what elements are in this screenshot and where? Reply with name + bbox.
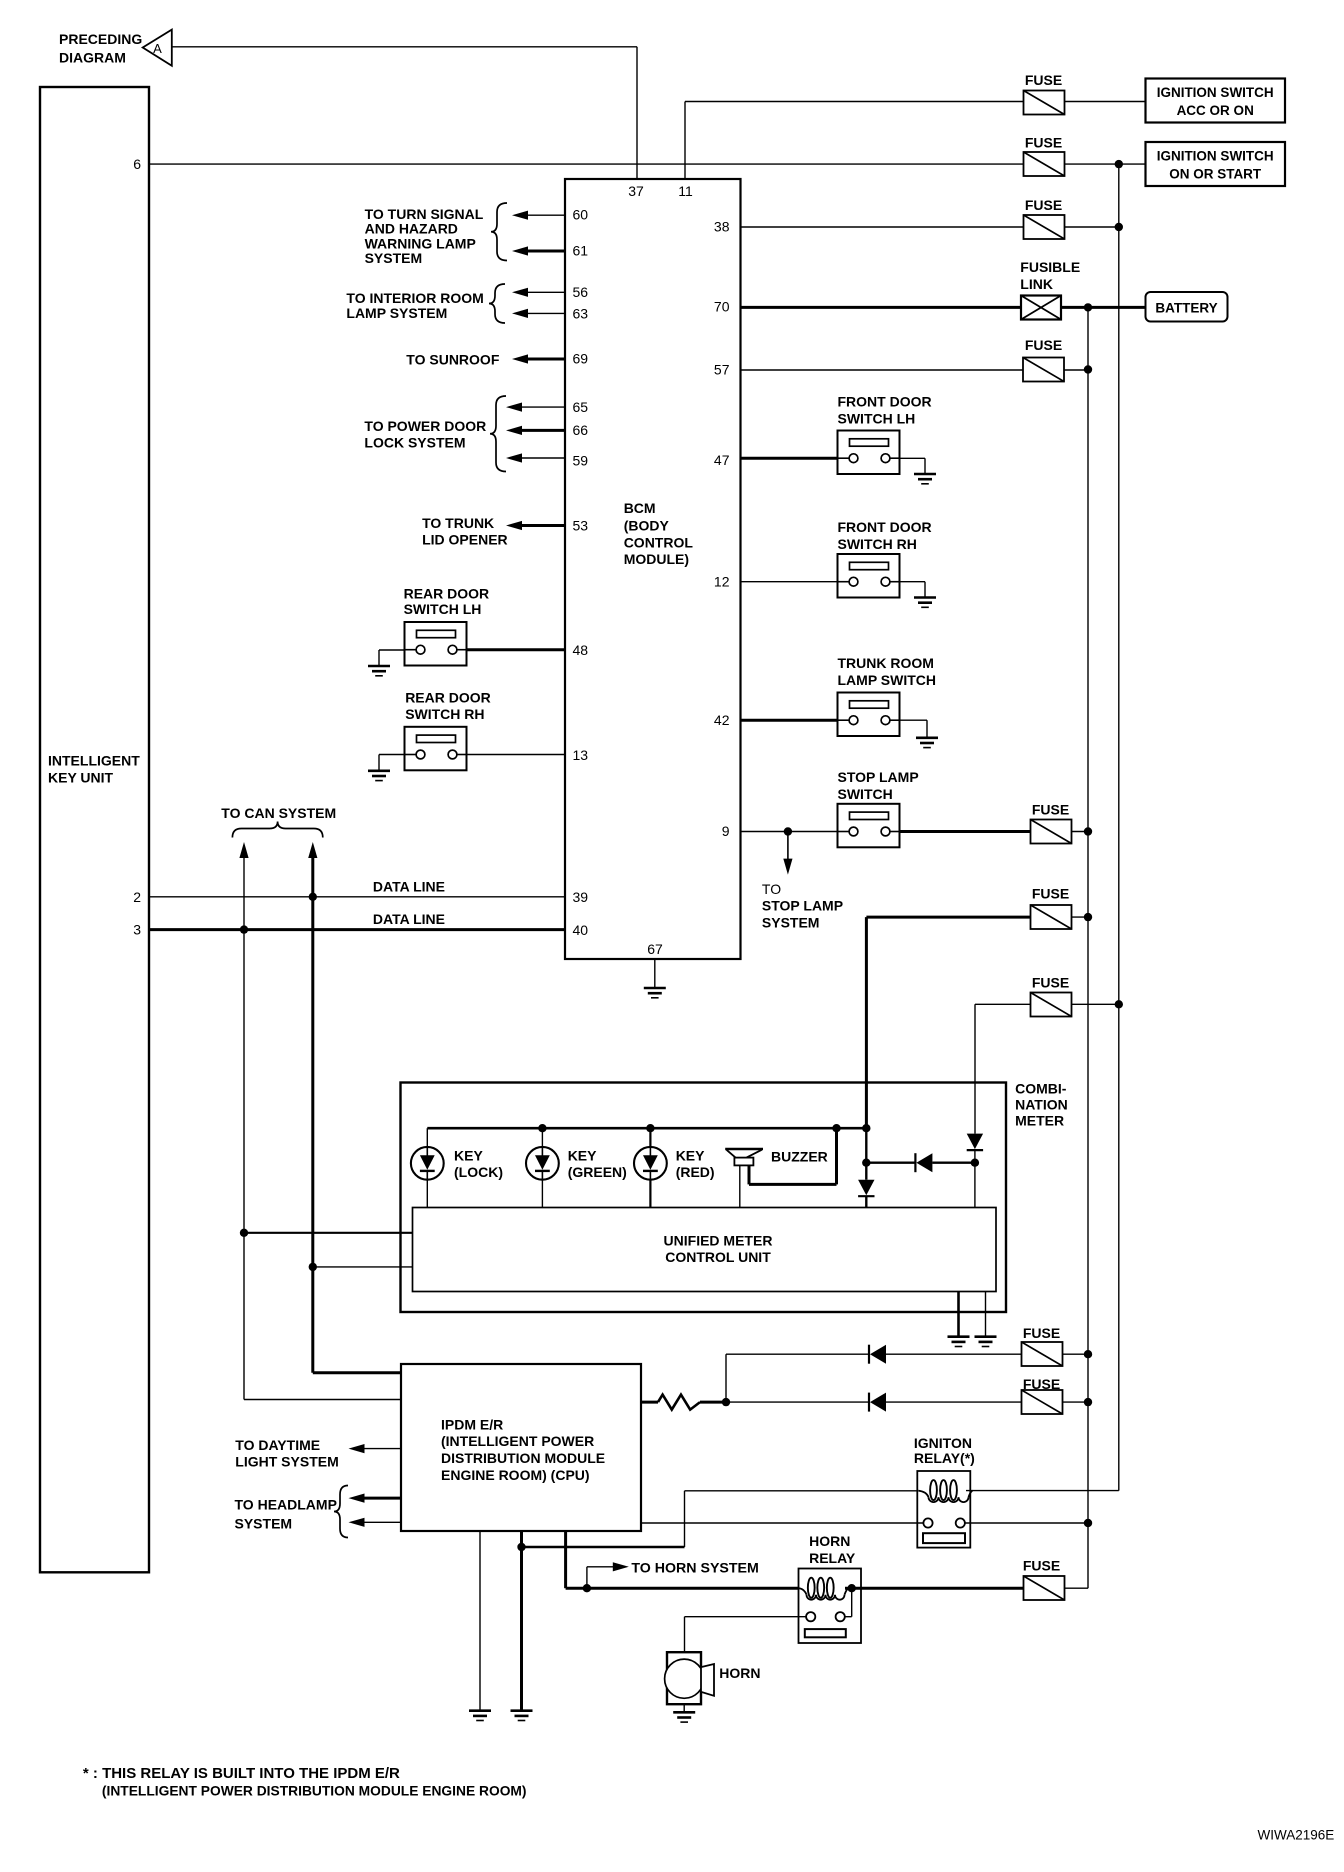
svg-text:40: 40	[573, 922, 589, 938]
arrow TO HORN SYSTEM	[586, 1567, 588, 1588]
wire to fuse F7	[975, 1003, 1031, 1005]
svg-text:BCM: BCM	[624, 500, 656, 516]
LED KEY GREEN	[538, 1124, 546, 1132]
wire horn relay contact to horn	[685, 1616, 807, 1618]
svg-text:FUSE: FUSE	[1023, 1325, 1060, 1341]
svg-text:SWITCH RH: SWITCH RH	[838, 536, 917, 552]
svg-text:TO HEADLAMP: TO HEADLAMP	[235, 1497, 337, 1513]
wire fuse F2 to ignition switch ON	[1065, 163, 1146, 165]
resistor in IPDM output	[641, 1401, 658, 1404]
data line pin2 to BCM pin39	[149, 896, 565, 898]
wire fuse F7 to ignition rail	[1072, 1003, 1119, 1005]
svg-text:SYSTEM: SYSTEM	[365, 250, 423, 266]
svg-text:69: 69	[573, 351, 589, 367]
wire coil junction to contact	[851, 1588, 853, 1617]
svg-text:ON OR START: ON OR START	[1169, 167, 1262, 182]
svg-text:LINK: LINK	[1020, 276, 1053, 292]
wire pin57 to fuse F4	[741, 369, 1023, 371]
junction on ignition rail	[1115, 160, 1123, 168]
svg-text:TO INTERIOR ROOM: TO INTERIOR ROOM	[346, 290, 483, 306]
svg-text:SWITCH: SWITCH	[838, 786, 893, 802]
svg-text:STOP LAMP: STOP LAMP	[762, 898, 843, 914]
svg-text:TO CAN SYSTEM: TO CAN SYSTEM	[221, 805, 336, 821]
wire stop lamp switch to fuse F5	[900, 830, 1031, 833]
meter ground 2	[985, 1292, 987, 1337]
wire coil to ignition rail	[966, 1490, 1119, 1492]
svg-text:NATION: NATION	[1015, 1097, 1068, 1113]
data line pin3 to BCM pin40	[149, 928, 565, 931]
ignition switch ACC OR ON box	[1146, 79, 1286, 123]
wire horn relay coil to fuse F10	[845, 1587, 1024, 1590]
wire ground to rear RH switch	[379, 754, 405, 756]
brace CAN group	[232, 822, 322, 838]
svg-text:9: 9	[722, 823, 730, 839]
svg-text:IGNITON: IGNITON	[914, 1435, 972, 1451]
svg-text:SYSTEM: SYSTEM	[762, 915, 820, 931]
wire IPDM to igniton relay coil (via below)	[685, 1490, 918, 1492]
ground rear door RH	[368, 769, 390, 772]
svg-text:STOP LAMP: STOP LAMP	[838, 769, 919, 785]
svg-text:UNIFIED METER: UNIFIED METER	[664, 1233, 773, 1249]
svg-text:13: 13	[573, 747, 589, 763]
BCM pin 67 ground wire	[654, 959, 656, 988]
svg-text:LAMP SYSTEM: LAMP SYSTEM	[346, 305, 447, 321]
svg-text:RELAY(*): RELAY(*)	[914, 1450, 975, 1466]
svg-text:47: 47	[714, 452, 730, 468]
svg-text:RELAY: RELAY	[809, 1550, 856, 1566]
buzzer symbol	[725, 1148, 763, 1150]
arrow to daytime light system	[364, 1448, 401, 1450]
wire trunk switch to ground	[900, 719, 928, 721]
wire fuse F4 to battery rail	[1064, 369, 1088, 371]
svg-text:(INTELLIGENT POWER: (INTELLIGENT POWER	[441, 1433, 594, 1449]
arrow to headlamp 2	[364, 1521, 401, 1523]
svg-text:3: 3	[133, 922, 141, 938]
svg-text:65: 65	[573, 399, 589, 415]
svg-text:DATA LINE: DATA LINE	[373, 879, 445, 895]
svg-text:SWITCH LH: SWITCH LH	[838, 411, 916, 427]
ground rear door LH	[368, 665, 390, 668]
svg-text:CONTROL: CONTROL	[624, 535, 694, 551]
svg-text:IGNITION SWITCH: IGNITION SWITCH	[1157, 85, 1274, 100]
svg-text:IGNITION SWITCH: IGNITION SWITCH	[1157, 149, 1274, 164]
wire fuse F6 to battery rail	[1072, 916, 1089, 918]
svg-text:53: 53	[573, 518, 589, 534]
wire pin12 to switch	[741, 581, 838, 583]
CAN arrow right	[311, 855, 314, 897]
meter ground 1	[957, 1292, 960, 1337]
svg-text:38: 38	[714, 219, 730, 235]
wire igniton relay contact to battery rail	[965, 1522, 1088, 1524]
svg-text:COMBI-: COMBI-	[1015, 1081, 1067, 1097]
svg-text:IPDM E/R: IPDM E/R	[441, 1417, 503, 1433]
wire ground to rear LH switch	[379, 649, 405, 651]
svg-text:INTELLIGENT: INTELLIGENT	[48, 753, 140, 769]
wire switch RH to ground	[900, 581, 926, 583]
meter diode D3 (down, right branch)	[967, 1134, 983, 1150]
BCM pin 11 wire to fuse	[684, 102, 686, 180]
wire rear RH switch to pin13	[467, 754, 566, 756]
wire pin38 to fuse F3	[741, 226, 1024, 228]
svg-text:HORN: HORN	[719, 1665, 760, 1681]
svg-text:(INTELLIGENT POWER DISTRIBUTIO: (INTELLIGENT POWER DISTRIBUTION MODULE E…	[102, 1784, 527, 1799]
svg-text:TO TRUNK: TO TRUNK	[422, 515, 494, 531]
svg-text:DIAGRAM: DIAGRAM	[59, 50, 126, 66]
svg-text:FUSE: FUSE	[1032, 886, 1069, 902]
svg-text:59: 59	[573, 452, 589, 468]
svg-text:METER: METER	[1015, 1113, 1064, 1129]
meter diode D1 (down, left branch)	[862, 1124, 870, 1132]
LED KEY LOCK	[426, 1128, 428, 1147]
svg-text:FUSE: FUSE	[1023, 1558, 1060, 1574]
svg-text:12: 12	[714, 574, 730, 590]
svg-text:39: 39	[573, 889, 589, 905]
svg-text:FUSE: FUSE	[1025, 337, 1062, 353]
svg-text:61: 61	[573, 242, 589, 258]
IPDM ground 2	[520, 1531, 523, 1711]
wire rear LH switch to pin48	[467, 648, 566, 651]
svg-text:SWITCH LH: SWITCH LH	[404, 601, 482, 617]
svg-text:ACC OR ON: ACC OR ON	[1177, 103, 1254, 118]
svg-text:BUZZER: BUZZER	[771, 1149, 828, 1165]
wire switch LH to ground	[900, 457, 926, 459]
svg-text:37: 37	[628, 183, 644, 199]
svg-text:66: 66	[573, 422, 589, 438]
wire to fuse F6	[866, 916, 1030, 919]
ground front door RH	[914, 596, 936, 599]
svg-text:FUSE: FUSE	[1025, 72, 1062, 88]
wire pin47 to switch	[741, 457, 838, 460]
svg-text:REAR DOOR: REAR DOOR	[405, 690, 491, 706]
svg-text:KEY: KEY	[676, 1148, 705, 1164]
svg-text:FRONT DOOR: FRONT DOOR	[838, 394, 932, 410]
ignition rail vertical	[1118, 164, 1120, 1491]
wire pin42 to switch	[741, 719, 838, 722]
wire pin9 to stop lamp switch	[741, 831, 838, 833]
combination meter box	[401, 1083, 1007, 1313]
wire fusible link to battery	[1061, 306, 1146, 309]
svg-text:11: 11	[678, 183, 693, 199]
arrow to headlamp 1	[364, 1497, 401, 1500]
battery rail vertical	[1087, 307, 1089, 1588]
svg-text:57: 57	[714, 362, 730, 378]
ignition switch ON OR START box	[1146, 142, 1286, 186]
svg-text:70: 70	[714, 299, 730, 315]
svg-text:* : THIS RELAY IS BUILT INTO T: * : THIS RELAY IS BUILT INTO THE IPDM E/…	[83, 1765, 400, 1782]
brace headlamp group	[334, 1486, 348, 1538]
brace turn signal group	[491, 203, 507, 261]
svg-text:TO HORN SYSTEM: TO HORN SYSTEM	[631, 1561, 758, 1577]
ground trunk switch	[916, 736, 938, 739]
svg-text:DATA LINE: DATA LINE	[373, 911, 445, 927]
svg-text:MODULE): MODULE)	[624, 551, 689, 567]
svg-text:(BODY: (BODY	[624, 518, 670, 534]
svg-text:FRONT DOOR: FRONT DOOR	[838, 519, 932, 535]
meter diode D2 (horizontal)	[862, 1159, 870, 1167]
wire to unified meter lower pin	[313, 1266, 413, 1268]
wire pin6 to fuse F2	[149, 163, 1024, 165]
meter internal supply bus	[427, 1127, 866, 1130]
wire fuse F5 to battery rail	[1072, 831, 1089, 833]
svg-text:LID OPENER: LID OPENER	[422, 532, 508, 548]
svg-text:48: 48	[573, 642, 589, 658]
wire to unified meter upper pin	[244, 1232, 413, 1234]
svg-text:TO POWER DOOR: TO POWER DOOR	[364, 418, 486, 434]
horn ground	[683, 1704, 685, 1712]
ground front door LH	[914, 473, 936, 476]
svg-text:HORN: HORN	[809, 1533, 850, 1549]
intelligent key unit box	[40, 87, 149, 1572]
svg-text:60: 60	[573, 207, 589, 223]
ground BCM pin 67	[644, 987, 666, 990]
igniton relay coil	[918, 1491, 928, 1498]
igniton relay box	[917, 1471, 970, 1548]
horn	[667, 1652, 701, 1704]
IPDM diode row upper	[726, 1353, 869, 1355]
svg-text:CONTROL UNIT: CONTROL UNIT	[665, 1249, 771, 1265]
brace interior room group	[489, 284, 505, 323]
svg-text:TO SUNROOF: TO SUNROOF	[406, 352, 500, 368]
svg-text:(LOCK): (LOCK)	[454, 1164, 503, 1180]
svg-text:ENGINE ROOM) (CPU): ENGINE ROOM) (CPU)	[441, 1467, 590, 1483]
arrow to stop lamp system	[787, 832, 789, 861]
svg-text:(GREEN): (GREEN)	[568, 1164, 627, 1180]
svg-text:(RED): (RED)	[676, 1164, 715, 1180]
svg-text:WIWA2196E: WIWA2196E	[1258, 1828, 1335, 1843]
LED KEY RED	[646, 1124, 654, 1132]
igniton relay contacts	[923, 1518, 932, 1527]
horn relay coil	[800, 1588, 807, 1595]
svg-text:67: 67	[647, 941, 663, 957]
svg-text:REAR DOOR: REAR DOOR	[404, 586, 490, 602]
svg-text:FUSE: FUSE	[1025, 135, 1062, 151]
horn relay contacts	[806, 1612, 815, 1621]
BCM box	[565, 179, 741, 959]
svg-text:56: 56	[573, 284, 589, 300]
unified meter control unit box	[413, 1208, 997, 1292]
svg-text:AND HAZARD: AND HAZARD	[365, 221, 458, 237]
preceding diagram connector A	[143, 30, 172, 66]
svg-text:2: 2	[133, 889, 141, 905]
svg-text:TO: TO	[762, 881, 781, 897]
svg-text:FUSE: FUSE	[1032, 802, 1069, 818]
brace power door group	[490, 396, 506, 472]
svg-text:TO DAYTIME: TO DAYTIME	[235, 1437, 320, 1453]
IPDM diode row lower	[726, 1401, 869, 1403]
svg-text:SWITCH RH: SWITCH RH	[405, 706, 484, 722]
svg-text:FUSIBLE: FUSIBLE	[1020, 259, 1080, 275]
wire IPDM to horn relay coil	[564, 1531, 567, 1588]
CAN rail left vertical to meter and IPDM	[243, 930, 245, 1400]
svg-text:KEY: KEY	[568, 1148, 597, 1164]
svg-text:BATTERY: BATTERY	[1155, 301, 1217, 316]
wire from connector A to BCM pin 37	[172, 46, 637, 48]
svg-text:KEY UNIT: KEY UNIT	[48, 770, 114, 786]
svg-text:KEY: KEY	[454, 1148, 483, 1164]
IPDM ground 1	[479, 1531, 481, 1711]
svg-text:DISTRIBUTION MODULE: DISTRIBUTION MODULE	[441, 1450, 605, 1466]
battery box	[1146, 292, 1228, 322]
svg-text:42: 42	[714, 712, 730, 728]
svg-text:A: A	[153, 41, 162, 56]
svg-text:PRECEDING: PRECEDING	[59, 31, 142, 47]
CAN arrow left	[243, 855, 245, 930]
svg-text:LAMP SWITCH: LAMP SWITCH	[838, 672, 937, 688]
svg-text:LIGHT SYSTEM: LIGHT SYSTEM	[235, 1454, 338, 1470]
svg-text:TRUNK ROOM: TRUNK ROOM	[838, 655, 934, 671]
svg-text:6: 6	[133, 156, 141, 172]
wire fuse F10 to battery rail	[1065, 1587, 1089, 1589]
svg-text:63: 63	[573, 305, 589, 321]
wire fuse F1 to ignition switch ACC	[1065, 101, 1146, 103]
svg-text:FUSE: FUSE	[1032, 975, 1069, 991]
horn relay box	[799, 1569, 862, 1644]
svg-text:SYSTEM: SYSTEM	[235, 1516, 293, 1532]
svg-text:FUSE: FUSE	[1025, 197, 1062, 213]
IPDM E/R box	[401, 1364, 641, 1531]
wire pin70 to fusible link	[741, 306, 1021, 309]
wire fuse F3 to ignition rail	[1065, 226, 1119, 228]
wire IPDM to igniton relay contact	[641, 1522, 923, 1524]
CAN rail right vertical to meter and IPDM	[311, 897, 314, 1373]
svg-text:LOCK SYSTEM: LOCK SYSTEM	[364, 435, 465, 451]
